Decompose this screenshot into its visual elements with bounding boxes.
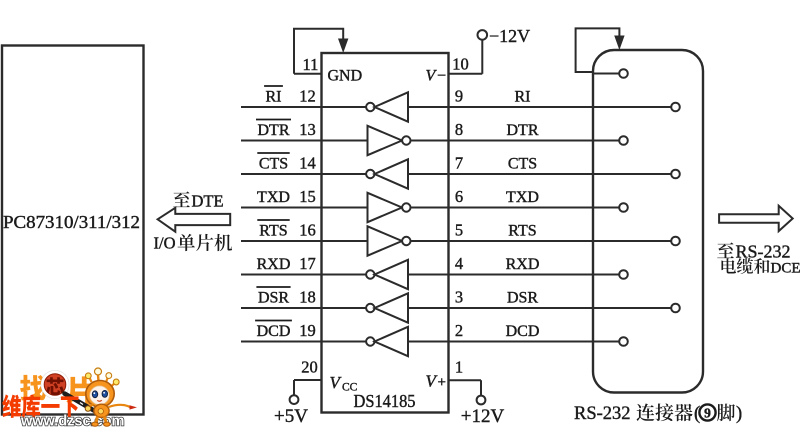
pin number 17	[299, 254, 316, 273]
svg-text:DS14185: DS14185	[354, 391, 416, 411]
pin number 18	[299, 288, 316, 307]
wire CTS right segment	[449, 173, 672, 175]
connector pin circle DSR	[671, 304, 680, 313]
label GND	[328, 68, 363, 85]
pin number 15	[299, 187, 316, 206]
label -12V	[489, 26, 530, 46]
pin number 19	[299, 321, 316, 340]
svg-text:I/O: I/O	[154, 234, 176, 253]
arrow to DTE (left)	[158, 208, 231, 232]
op-amp IC U1 DS14185 box	[322, 53, 449, 413]
pin 10 stub wire	[449, 40, 483, 74]
svg-text:11: 11	[303, 55, 319, 74]
label 电缆和DCE	[721, 258, 800, 276]
label +5V	[274, 406, 308, 427]
wire to connector pin 1	[593, 73, 619, 75]
label +12V	[461, 406, 505, 427]
inverter U1 RTS (driver, bubble right)	[322, 226, 449, 255]
inverter U1 DCD (receiver, bubble left)	[322, 327, 449, 356]
connector pin circle TXD	[619, 203, 628, 212]
label RTS (right)	[508, 223, 536, 240]
caption RS-232 连接器(9脚)	[574, 403, 742, 424]
svg-text:−: −	[437, 68, 446, 85]
wire TXD left segment	[241, 207, 322, 209]
svg-text:DTR: DTR	[258, 122, 290, 139]
svg-text:): )	[736, 404, 742, 424]
arrowhead into connector top	[614, 36, 624, 51]
watermark www.dzsc.com	[20, 414, 124, 427]
connector pin circle CTS	[671, 170, 680, 179]
inverter U1 RXD (receiver, bubble left)	[322, 260, 449, 289]
label RXD (left)	[257, 256, 291, 273]
connector pin circle RTS	[671, 237, 680, 246]
terminal +12V	[477, 396, 486, 405]
svg-text:RS-232: RS-232	[574, 404, 631, 424]
label DCD (right)	[506, 323, 540, 340]
svg-text:DTR: DTR	[507, 122, 539, 139]
svg-text:+: +	[438, 375, 446, 391]
wire DTR left segment	[241, 140, 322, 142]
label DSR (right)	[507, 290, 538, 307]
inverter U1 DTR (driver, bubble right)	[322, 126, 449, 155]
connector pin circle RXD	[619, 270, 628, 279]
svg-text:9: 9	[455, 87, 463, 106]
label DTR (right)	[507, 122, 539, 139]
svg-text:6: 6	[455, 187, 463, 206]
wire DSR left segment	[241, 307, 322, 309]
svg-text:RTS: RTS	[508, 223, 536, 240]
overline DSR	[256, 286, 290, 288]
overline RI	[264, 85, 283, 87]
pin number 11	[303, 55, 319, 74]
inverter U1 DSR (receiver, bubble left)	[322, 293, 449, 322]
svg-text:GND: GND	[328, 68, 363, 85]
svg-text:1: 1	[455, 358, 463, 377]
wire DCD right segment	[449, 341, 620, 343]
svg-text:TXD: TXD	[506, 189, 539, 206]
overline DTR	[256, 119, 291, 121]
pin number 20	[301, 358, 318, 377]
wire RXD left segment	[241, 274, 322, 276]
overline CTS	[257, 152, 289, 154]
terminal +5V	[290, 395, 299, 404]
svg-text:DCD: DCD	[257, 323, 291, 340]
svg-text:19: 19	[299, 321, 316, 340]
svg-text:+12V: +12V	[461, 406, 505, 427]
pin number 12	[299, 87, 316, 106]
label TXD (right)	[506, 189, 539, 206]
connector pin circle RI	[671, 103, 680, 112]
svg-text:PC87310/311/312: PC87310/311/312	[3, 212, 140, 232]
svg-text:RS-232: RS-232	[736, 242, 791, 262]
label TXD (left)	[257, 189, 290, 206]
pin 11 stub wire	[294, 73, 322, 75]
wire RTS left segment	[241, 240, 322, 242]
svg-text:10: 10	[452, 55, 469, 74]
terminal -12V	[478, 30, 488, 40]
pin number 13	[299, 120, 316, 139]
svg-text:DTE: DTE	[192, 192, 224, 211]
chip PC87310/311/312 box	[2, 46, 144, 415]
label CTS (left)	[259, 156, 288, 173]
label I/O单片机	[154, 234, 233, 253]
label DTR (left)	[258, 122, 290, 139]
pin number 9	[455, 87, 463, 106]
svg-text:+5V: +5V	[274, 406, 308, 427]
inverter U1 CTS (receiver, bubble left)	[322, 159, 449, 188]
wire RI left segment	[241, 106, 322, 108]
pin number 7	[455, 154, 463, 173]
inverter U1 TXD (driver, bubble right)	[322, 193, 449, 222]
watermark 维库一下	[2, 394, 78, 418]
svg-text:RXD: RXD	[506, 256, 540, 273]
label RTS (left)	[259, 223, 287, 240]
svg-text:14: 14	[299, 154, 316, 173]
pin number 3	[455, 288, 463, 307]
wire RXD right segment	[449, 274, 620, 276]
label V+	[426, 372, 446, 391]
svg-text:RTS: RTS	[259, 223, 287, 240]
inverter U1 RI (receiver, bubble left)	[322, 92, 449, 121]
wire DSR right segment	[449, 307, 672, 309]
svg-text:RI: RI	[266, 89, 282, 106]
svg-text:8: 8	[455, 120, 463, 139]
watermark 找芯片 logo	[20, 375, 93, 405]
pin number 14	[299, 154, 316, 173]
pin 20 stub wire	[294, 380, 322, 395]
wire DTR right segment	[449, 140, 620, 142]
wire DCD left segment	[241, 341, 322, 343]
label RXD (right)	[506, 256, 540, 273]
svg-text:DCD: DCD	[506, 323, 540, 340]
svg-text:DCE: DCE	[771, 261, 800, 277]
pin number 6	[455, 187, 463, 206]
watermark magnifier with 芯	[41, 371, 96, 412]
watermark mascot	[85, 368, 137, 426]
pin number 8	[455, 120, 463, 139]
arrowhead into IC top	[338, 39, 348, 54]
label DS14185	[354, 391, 416, 411]
label DCD (left)	[257, 323, 291, 340]
label V-	[426, 68, 447, 85]
svg-text:TXD: TXD	[257, 189, 290, 206]
svg-text:4: 4	[455, 254, 463, 273]
label RI (left)	[266, 89, 282, 106]
svg-text:−12V: −12V	[489, 26, 530, 46]
pin number 16	[299, 221, 316, 240]
svg-text:RXD: RXD	[257, 256, 291, 273]
pin number 2	[455, 321, 463, 340]
pin 1 stub wire	[449, 380, 482, 395]
svg-text:3: 3	[455, 288, 463, 307]
label 至RS-232	[717, 242, 790, 262]
wire TXD right segment	[449, 207, 620, 209]
svg-text:9: 9	[704, 406, 711, 421]
svg-text:DSR: DSR	[258, 290, 289, 307]
connector pin circle DCD	[619, 337, 628, 346]
connector pin circle (top)	[619, 69, 628, 78]
svg-text:CTS: CTS	[259, 156, 288, 173]
label RI (right)	[515, 89, 531, 106]
svg-text:20: 20	[301, 358, 318, 377]
pin number 5	[455, 221, 463, 240]
svg-text:CTS: CTS	[508, 156, 537, 173]
svg-text:18: 18	[299, 288, 316, 307]
label CTS (right)	[508, 156, 537, 173]
label DSR (left)	[258, 290, 289, 307]
svg-text:12: 12	[299, 87, 316, 106]
arrow to RS-232 cable (right)	[719, 206, 793, 231]
RS-232 connector J1 body	[593, 50, 703, 393]
wire CTS left segment	[241, 173, 322, 175]
wire RI right segment	[449, 106, 672, 108]
svg-text:7: 7	[455, 154, 463, 173]
svg-text:15: 15	[299, 187, 316, 206]
svg-text:13: 13	[299, 120, 316, 139]
label 至DTE	[173, 191, 223, 210]
pin number 10	[452, 55, 469, 74]
pin number 1	[455, 358, 463, 377]
overline DCD	[255, 320, 292, 322]
svg-text:5: 5	[455, 221, 463, 240]
svg-text:16: 16	[299, 221, 316, 240]
pin number 4	[455, 254, 463, 273]
svg-text:RI: RI	[515, 89, 531, 106]
overline RTS	[257, 219, 289, 221]
GND feedback loop wire	[294, 29, 343, 74]
svg-text:2: 2	[455, 321, 463, 340]
connector top loop wire	[576, 28, 620, 72]
svg-text:DSR: DSR	[507, 290, 538, 307]
wire RTS right segment	[449, 240, 672, 242]
label VCC	[330, 373, 358, 394]
connector pin circle DTR	[619, 136, 628, 145]
svg-text:17: 17	[299, 254, 316, 273]
